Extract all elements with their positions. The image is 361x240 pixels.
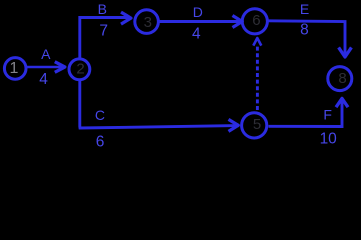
svg-text:8: 8: [338, 70, 346, 87]
svg-text:1: 1: [10, 60, 19, 77]
svg-text:4: 4: [39, 71, 48, 88]
svg-text:3: 3: [144, 14, 152, 31]
svg-text:6: 6: [252, 12, 260, 29]
svg-text:2: 2: [76, 60, 84, 77]
svg-text:5: 5: [253, 116, 261, 133]
svg-text:C: C: [95, 107, 105, 123]
svg-text:B: B: [98, 1, 107, 17]
svg-text:4: 4: [192, 26, 201, 43]
svg-text:10: 10: [320, 131, 338, 148]
svg-text:D: D: [193, 4, 203, 20]
svg-text:8: 8: [300, 22, 309, 39]
svg-text:7: 7: [99, 22, 108, 39]
svg-text:F: F: [323, 107, 332, 123]
svg-text:E: E: [300, 1, 309, 17]
svg-text:6: 6: [96, 133, 105, 149]
svg-text:A: A: [41, 46, 51, 62]
